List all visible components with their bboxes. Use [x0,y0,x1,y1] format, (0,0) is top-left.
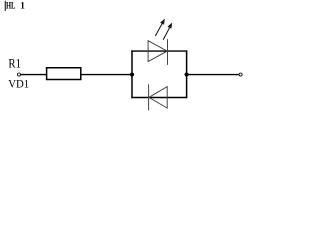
LED HL1 cathode bar [167,39,169,65]
wire: node B to right terminal [187,74,239,76]
wire: top branch [131,50,187,52]
LED arrow 2 [163,23,172,40]
svg-text:HL: HL [6,1,15,11]
text cursor [5,1,6,11]
terminal X2 (right) [239,73,242,76]
wire: resistor to node A [81,74,132,76]
LED HL1 triangle [148,41,167,62]
wire: left side vertical of parallel loop [131,50,133,98]
terminal X1 (left) [17,73,20,76]
resistor R1 [47,68,81,80]
wire: bottom branch [131,97,187,99]
LED arrow 1 [155,19,164,36]
svg-text:R1: R1 [8,57,21,71]
node A junction [130,72,134,76]
diode VD1 cathode bar [148,84,150,110]
wire: right side vertical of parallel loop [186,50,188,98]
svg-text:1: 1 [20,1,25,11]
node B junction [185,72,189,76]
wire: left terminal to resistor [21,74,47,76]
diode VD1 triangle [149,87,167,109]
svg-text:VD1: VD1 [8,76,29,90]
